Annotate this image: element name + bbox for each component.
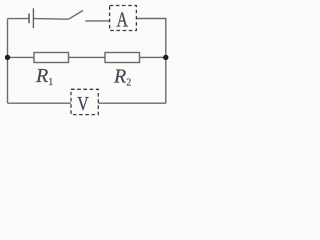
svg-text:A: A <box>117 7 129 31</box>
svg-text:V: V <box>77 93 89 115</box>
